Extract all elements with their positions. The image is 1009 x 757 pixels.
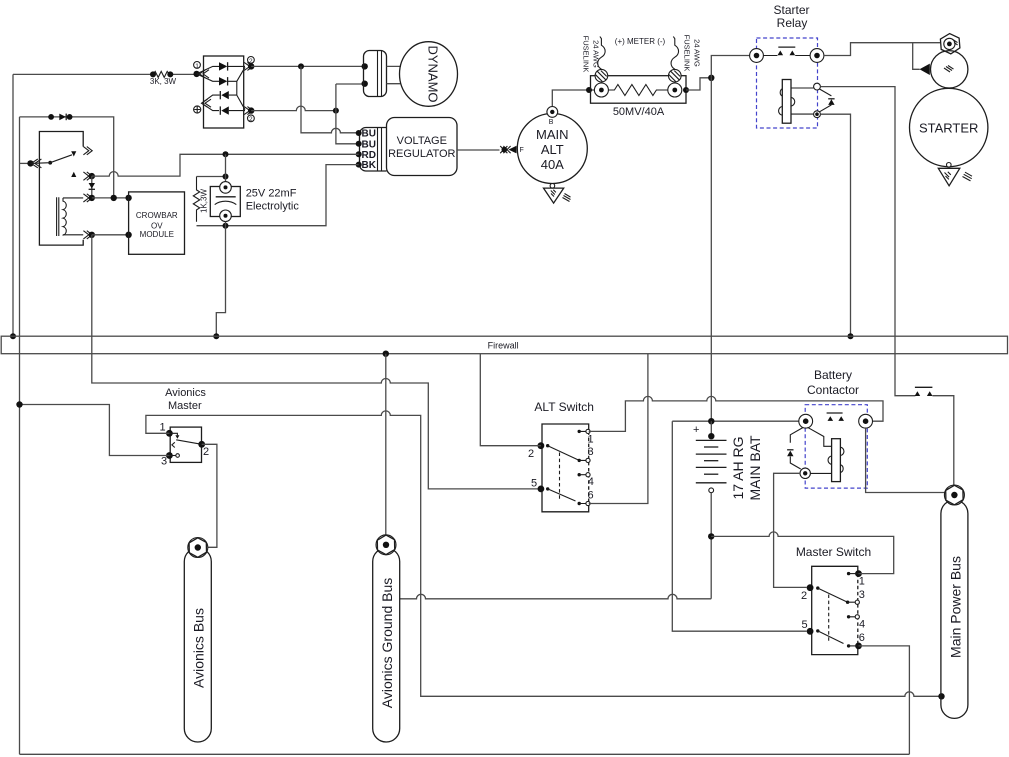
coil contactor: [832, 439, 841, 482]
shunt 50MV/40A: [591, 69, 687, 118]
connector chevrons bridge bottom output: [244, 107, 253, 115]
svg-text:REGULATOR: REGULATOR: [388, 148, 455, 160]
svg-text:F: F: [520, 147, 524, 154]
terminal avionics pin2: [198, 441, 205, 448]
wire battery minus to ground bus: [400, 493, 712, 599]
svg-text:BK: BK: [362, 160, 377, 171]
capacitor 25V 22mF electrolytic: [210, 182, 299, 222]
ALT switch box: [542, 424, 589, 512]
fuselink meter left: [598, 36, 606, 69]
svg-text:Relay: Relay: [777, 16, 808, 30]
diode D2: [219, 77, 227, 85]
svg-text:6: 6: [859, 632, 865, 644]
diode starter relay clamp: [820, 89, 832, 112]
wire bottom ground rail: [20, 753, 910, 755]
junction battery plus: [708, 418, 714, 424]
svg-text:(+) METER (-): (+) METER (-): [615, 37, 666, 46]
arrow drive: [913, 43, 920, 70]
alternator MAIN ALT 40A: [500, 107, 587, 204]
wire OV relay top diode run: [20, 117, 114, 198]
battery 17AH RG MAIN BAT: [672, 418, 799, 501]
connector chevrons OV NC: [83, 172, 92, 180]
svg-text:Firewall: Firewall: [488, 340, 519, 350]
bus Main Power Bus: [941, 485, 968, 718]
junction left wire on firewall: [10, 333, 16, 339]
bus Avionics Bus: [184, 538, 211, 743]
svg-text:40A: 40A: [541, 157, 564, 172]
svg-text:Avionics: Avionics: [165, 387, 206, 399]
wire shunt to main feed node: [686, 78, 711, 90]
wire coil bottom down to ALT switch pin5: [92, 235, 538, 489]
svg-text:Contactor: Contactor: [807, 383, 859, 397]
svg-text:3: 3: [588, 446, 594, 458]
switch Master Switch: [796, 545, 871, 655]
svg-text:VOLTAGE: VOLTAGE: [397, 135, 447, 147]
wire starter relay aux top to breaker: [820, 87, 915, 396]
junction cap top branch: [223, 174, 229, 180]
svg-text:24 AWG: 24 AWG: [693, 39, 702, 67]
svg-text:Electrolytic: Electrolytic: [246, 201, 300, 213]
terminal starter relay coil bottom: [814, 111, 821, 118]
generator DYNAMO: [400, 42, 458, 107]
svg-text:50MV/40A: 50MV/40A: [613, 106, 665, 118]
svg-text:MAIN: MAIN: [536, 127, 569, 142]
svg-text:2: 2: [249, 116, 253, 123]
wire cap bottom to firewall ground: [216, 222, 225, 336]
wire avionics pin2 to avionics bus: [202, 444, 217, 547]
starter body: [910, 88, 988, 166]
wire master pin1 to battery minus: [711, 532, 894, 574]
junction bridge bottom output: [248, 107, 254, 113]
switch ALT Switch: [528, 400, 594, 512]
wire ALT pin1 to battery contactor: [589, 396, 883, 431]
terminal master pin2: [807, 584, 814, 591]
contact ALT pin4: [578, 473, 581, 476]
contactor Battery Contactor: [787, 368, 872, 488]
wire ALT pin2 to firewall: [480, 354, 541, 446]
wire starter relay output to starter: [824, 43, 940, 56]
junction shunt right lead: [683, 87, 689, 93]
wire breaker to main power bus: [932, 396, 953, 485]
junction VR pin BK: [356, 162, 362, 168]
svg-text:4: 4: [588, 476, 594, 488]
terminal battery minus: [709, 488, 714, 493]
junction sense wire to coil top: [111, 195, 117, 201]
wire master pin6 to ground rail: [859, 646, 910, 754]
junction VR pin BU1: [356, 130, 362, 136]
pin label 1 circled: [194, 62, 201, 69]
svg-text:ALT: ALT: [541, 142, 564, 157]
contact master pin4: [847, 615, 850, 618]
wire VR to alternator field: [457, 149, 500, 151]
wire resistor top to cap top: [197, 176, 226, 178]
junction avionics feed on main bus: [938, 693, 944, 699]
svg-text:FUSELINK: FUSELINK: [683, 35, 692, 72]
svg-text:1: 1: [588, 434, 594, 446]
contact starter relay: [778, 46, 795, 48]
connector chevrons OV NO: [83, 147, 92, 155]
arm master lower: [818, 631, 844, 644]
svg-text:BU: BU: [362, 139, 376, 150]
contact master pin3: [846, 601, 849, 604]
module CROWBAR OV: [129, 192, 185, 254]
wire RD branch down into cap: [225, 154, 227, 182]
svg-text:4: 4: [859, 619, 865, 631]
svg-text:MODULE: MODULE: [140, 230, 174, 239]
wire bridge internal bottom output: [229, 110, 245, 112]
terminal master pin5: [807, 628, 814, 635]
terminal ALT pin2: [538, 442, 545, 449]
terminal contactor left: [799, 414, 813, 428]
fuse end right: [669, 69, 682, 82]
wire coil leads: [791, 88, 814, 114]
firewall band: [1, 336, 1007, 354]
svg-text:Master: Master: [168, 400, 202, 412]
pin label plus circled: [194, 106, 201, 113]
svg-text:5: 5: [531, 478, 537, 490]
relay OV contact assembly: [27, 132, 92, 246]
svg-text:DYNAMO: DYNAMO: [426, 45, 441, 102]
wire left vertical to firewall: [12, 74, 14, 336]
wire branch up to dynamo connector pin2 and down to VR BU2: [336, 84, 365, 144]
svg-text:Battery: Battery: [814, 368, 852, 382]
svg-text:3: 3: [161, 456, 167, 468]
contact contactor: [827, 412, 843, 414]
svg-text:2: 2: [528, 448, 534, 460]
svg-text:1: 1: [859, 576, 865, 588]
junction relay ground on firewall: [848, 333, 854, 339]
junction shunt left lead: [586, 87, 592, 93]
pinion circle: [931, 51, 968, 88]
junction RD to capacitor branch: [223, 151, 229, 157]
junction avionics ground on rail: [16, 401, 22, 407]
svg-text:5: 5: [802, 619, 808, 631]
breaker contact: [915, 387, 933, 396]
svg-text:STARTER: STARTER: [919, 121, 978, 136]
connector chevrons F: [500, 146, 510, 153]
wire ALT pin6 to firewall: [589, 354, 648, 504]
wire master pin5 to battery plus rail: [672, 421, 806, 631]
terminal avionics bus stud: [188, 538, 208, 558]
mechanical link dashed: [828, 595, 830, 642]
junction VR pin RD: [356, 151, 362, 157]
wire coil bottom to crowbar: [92, 234, 129, 236]
wire contactor to main power bus: [866, 428, 945, 492]
junction firewall avionics ground tap: [383, 351, 389, 357]
relay box dashed: [757, 38, 818, 128]
junction crowbar bottom input: [125, 232, 131, 238]
starter motor: [910, 34, 988, 186]
arm master upper: [818, 588, 848, 602]
wire feed node to starter relay: [711, 56, 749, 78]
terminal main bus stud: [944, 485, 964, 505]
pin label 2 circled top: [248, 57, 255, 64]
wire cap bottom rail to VR BK: [197, 165, 359, 226]
wire OV latch loop: [39, 132, 83, 246]
junction bridge top output: [248, 63, 254, 69]
svg-text:Avionics Ground Bus: Avionics Ground Bus: [379, 578, 395, 708]
wire OV relay common stub: [20, 162, 31, 164]
junction OV coil bottom node: [89, 232, 95, 238]
wire bridge internal top output: [228, 65, 245, 67]
fuse end left: [595, 69, 608, 82]
contact master pin6: [847, 644, 850, 647]
contact arrow NO: [71, 151, 76, 156]
junction main feed node: [708, 75, 714, 81]
diode contactor clamp: [790, 428, 803, 470]
svg-text:Starter: Starter: [773, 3, 809, 17]
terminal contactor coil minus: [800, 468, 810, 478]
wire main feed vertical to battery: [710, 78, 712, 421]
wire starter relay coil bottom to firewall ground: [820, 114, 850, 336]
junction dynamo connector pin2: [362, 81, 368, 87]
wire contactor coil top lead: [808, 427, 832, 446]
wire resistor to bridge input: [173, 73, 197, 75]
terminal F arrow: [509, 146, 517, 154]
svg-text:Avionics Bus: Avionics Bus: [191, 608, 207, 688]
svg-text:3: 3: [859, 589, 865, 601]
arm ALT lower: [548, 489, 576, 501]
battery plates: [696, 439, 727, 441]
node bridge plus terminal: [202, 99, 212, 107]
connector chevrons OV coil bottom: [83, 231, 92, 239]
terminal B: [547, 107, 558, 118]
svg-text:BU: BU: [362, 129, 376, 140]
contact ALT pin6: [578, 502, 581, 505]
svg-text:1K,3W: 1K,3W: [200, 189, 209, 213]
wire contactor coil bottom lead: [810, 472, 831, 474]
wire avionics pin3 to ground rail: [20, 405, 170, 456]
junction VR pin BU2: [356, 141, 362, 147]
diode OV sense: [48, 114, 72, 121]
resistor R 3K,3W: [150, 71, 177, 86]
wire bridge internal D2-D3 tie: [228, 67, 245, 109]
wire bridge input fanout: [197, 66, 219, 81]
terminal ALT pin5: [538, 486, 545, 493]
switch Avionics Master: [160, 387, 210, 467]
wire connector to dynamo leads: [387, 66, 402, 83]
ground starter: [947, 163, 952, 168]
node bridge AC input: [193, 71, 199, 77]
svg-text:1: 1: [160, 422, 166, 434]
svg-text:+: +: [693, 424, 699, 436]
junction top output to BU1 branch: [298, 63, 304, 69]
wire contactor coil to master pin2: [774, 473, 807, 587]
terminal starter relay left: [750, 49, 764, 63]
pin label 2 circled bottom: [248, 115, 255, 122]
svg-text:2: 2: [203, 446, 209, 458]
diode D1: [219, 62, 227, 70]
bus Avionics Ground Bus: [373, 535, 400, 742]
junction OV coil top node: [89, 195, 95, 201]
svg-text:6: 6: [588, 490, 594, 502]
svg-text:MAIN BAT: MAIN BAT: [747, 435, 763, 501]
terminal starter relay right: [810, 49, 824, 63]
contact ALT pin1: [578, 430, 581, 433]
contact ALT pin3: [578, 459, 581, 462]
contact arrow NC: [71, 172, 76, 177]
connector chevrons OV coil top: [83, 194, 92, 202]
fuselink meter right: [671, 36, 679, 69]
wire battery plus rail: [672, 420, 799, 422]
svg-text:3K, 3W: 3K, 3W: [150, 77, 177, 86]
arm ALT upper: [548, 446, 580, 461]
connector chevrons OV common: [31, 159, 41, 168]
wire bridge top output to dynamo connector: [251, 65, 365, 67]
svg-text:ALT Switch: ALT Switch: [534, 400, 594, 414]
mechanical link dashed: [559, 453, 561, 501]
junction crowbar top input: [125, 195, 131, 201]
wire branch down to VR BU1: [301, 66, 359, 132]
svg-text:25V 22mF: 25V 22mF: [246, 188, 297, 200]
svg-text:17 AH RG: 17 AH RG: [730, 436, 746, 499]
junction cap ground on firewall: [213, 333, 219, 339]
terminal contactor right: [859, 414, 873, 428]
connector chevrons bridge top output: [244, 62, 253, 70]
connector dynamo plug: [364, 51, 387, 97]
diode D3: [221, 91, 229, 99]
svg-text:Master Switch: Master Switch: [796, 545, 871, 559]
junction OV NC node: [89, 173, 95, 179]
svg-text:Main Power Bus: Main Power Bus: [948, 556, 964, 658]
terminal shunt right: [668, 83, 682, 97]
contactor box dashed: [805, 405, 867, 488]
terminal avionics pin3: [166, 452, 173, 459]
connector chevrons bridge input: [200, 70, 210, 78]
wire top-left field supply: [13, 73, 151, 75]
coil starter relay: [782, 80, 791, 124]
ground alternator: [550, 184, 555, 189]
diode OV coil clamp: [89, 176, 95, 198]
terminal ground bus stud: [376, 535, 396, 555]
wire alternator B lead: [552, 90, 598, 106]
terminal avionics pin1: [166, 430, 173, 437]
svg-text:B: B: [549, 119, 554, 126]
diode D4: [221, 106, 229, 114]
wire ground rail left vertical: [19, 117, 21, 754]
wire bridge bottom output to connector branch: [251, 106, 336, 111]
relay OV coil: [57, 194, 93, 239]
junction bottom output at branch: [333, 108, 339, 114]
terminal starter stud hex: [940, 34, 959, 54]
resistor shunt element: [608, 85, 667, 96]
regulator VOLTAGE REGULATOR box: [387, 118, 458, 176]
switch arm OV: [48, 161, 52, 165]
bridge rectifier module: [193, 56, 254, 128]
svg-text:FUSELINK: FUSELINK: [582, 36, 591, 73]
terminal shunt left: [594, 83, 608, 97]
avionics master box: [170, 427, 201, 462]
terminal starter relay coil top: [814, 83, 821, 90]
svg-text:CROWBAR: CROWBAR: [136, 211, 178, 220]
junction dynamo connector pin1: [362, 63, 368, 69]
arm avionics: [176, 440, 202, 445]
wire firewall to avionics ground bus: [385, 354, 387, 535]
wire battery top lead: [710, 421, 712, 437]
connector voltage regulator plug: [356, 128, 387, 172]
junction OV common: [27, 160, 33, 166]
svg-text:24 AWG: 24 AWG: [592, 40, 601, 68]
svg-text:2: 2: [801, 590, 807, 602]
wire avionics pin1 feed from main bus: [146, 411, 942, 696]
relay Starter Relay: [750, 3, 835, 128]
master switch box: [812, 566, 858, 654]
junction cap bottom: [223, 223, 229, 229]
wire bridge plus fanout: [202, 95, 220, 111]
wire coil top to crowbar: [92, 197, 129, 199]
wire OV NC to VR RD: [92, 154, 359, 176]
contact master pin1: [847, 572, 850, 575]
junction battery minus to master pin1: [708, 533, 714, 539]
resistor 1K,3W: [193, 177, 208, 222]
svg-text:1: 1: [195, 63, 199, 70]
